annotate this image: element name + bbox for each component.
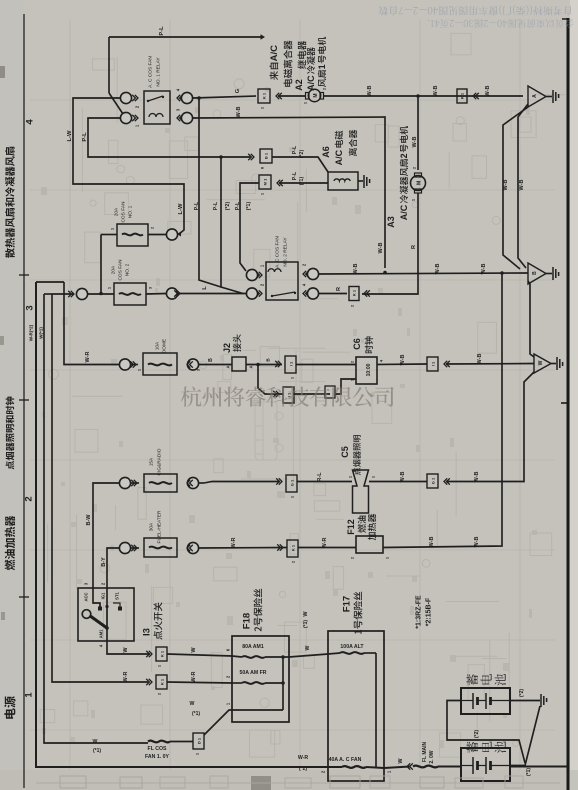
svg-text:W-B: W-B (400, 355, 406, 366)
svg-text:(*1): (*1) (192, 711, 200, 717)
svg-text:(*2): (*2) (519, 689, 525, 697)
fuse 15A CIG&RADIO (144, 474, 177, 492)
svg-text:P-L: P-L (292, 145, 298, 154)
svg-text:W-B: W-B (485, 86, 491, 97)
svg-text:W-R: W-R (298, 755, 309, 761)
svg-text:30A: 30A (149, 522, 155, 531)
svg-text:I 1: I 1 (288, 361, 293, 366)
svg-text:2. 0W: 2. 0W (429, 750, 435, 763)
svg-text:W-B: W-B (477, 354, 483, 365)
fuel heater F12 box (356, 536, 383, 553)
wire down to relay1 pin2 (108, 37, 110, 93)
connector K1 W-R row (156, 675, 167, 689)
svg-text:ST1: ST1 (115, 591, 120, 599)
fuse no.2 terminal (166, 288, 177, 299)
svg-text:B 1: B 1 (263, 152, 268, 159)
wire: P-L feed to A/C clutch relay (arrow) (109, 36, 262, 38)
svg-text:(*2): (*2) (474, 730, 480, 738)
svg-text:W-R: W-R (85, 352, 91, 363)
F12 ground wire to B row (383, 273, 502, 548)
svg-text:B: B (208, 358, 214, 362)
svg-text:W-R: W-R (231, 538, 237, 549)
svg-text:A/C: A/C (399, 204, 409, 220)
relay1 coil symbol (149, 114, 163, 118)
clutch coil A6 box (328, 172, 358, 190)
svg-text:W-R: W-R (123, 672, 129, 683)
svg-text:A/C: A/C (334, 149, 344, 165)
svg-text:W: W (123, 647, 129, 653)
motor A3: condenser fan no.2 (411, 176, 426, 191)
relay2 switch (272, 292, 295, 296)
fuse 10A DOME (143, 353, 177, 375)
svg-text:W(*1): W(*1) (39, 327, 44, 339)
svg-text:L: L (202, 286, 208, 290)
svg-text:W: W (305, 645, 311, 650)
svg-text:W-B: W-B (236, 107, 242, 118)
ground connector triangle W (534, 354, 551, 373)
svg-text:G 1: G 1 (430, 477, 435, 484)
connector K1 AM1 row (156, 647, 167, 661)
wire L to relay2 (178, 293, 246, 295)
bottom heavy power row continues to border (510, 766, 568, 768)
ground connector triangle B (528, 263, 546, 284)
W-B row relay2 to ground B (319, 273, 528, 274)
relay2 coil (268, 269, 281, 272)
svg-text:50A AM FR: 50A AM FR (240, 670, 267, 676)
svg-text:P-L: P-L (235, 201, 241, 210)
svg-text:L-W: L-W (67, 130, 73, 141)
svg-text:W-B: W-B (429, 537, 435, 548)
op relay U2: A/C COS FAN NO.2 RELAY box (266, 262, 298, 300)
svg-text:K 1: K 1 (290, 544, 295, 551)
connector D on C6 row (325, 386, 335, 398)
svg-text:40A A. C FAN: 40A A. C FAN (329, 757, 362, 763)
dome fuse terminal R (187, 359, 198, 370)
svg-text:W: W (398, 758, 404, 764)
battery2 to ground diag (510, 706, 540, 766)
cig fuse terminal R (187, 477, 198, 488)
watermark 杭州将睿科技有限公司 (181, 386, 394, 407)
fuel fuse terminal R (187, 542, 198, 553)
svg-text:20A: 20A (114, 207, 120, 216)
rail W(*1) (44, 294, 148, 743)
connector M1 (259, 175, 271, 189)
relay2 pin3 terminal (307, 268, 318, 279)
dark specks on left paper edge (0, 66, 5, 78)
battery2 label (467, 742, 478, 753)
right page border (thick) (567, 18, 570, 790)
svg-text:*1:3RZ-FE: *1:3RZ-FE (416, 595, 423, 629)
svg-text:COS FAN: COS FAN (121, 201, 127, 223)
wire F17 to FL MAIN (384, 767, 410, 769)
rail top links (36, 281, 64, 283)
ground A6 (364, 175, 370, 188)
svg-text:(*1): (*1) (246, 202, 252, 211)
relay2 pin4 terminal (307, 288, 318, 299)
fuse 20A COS FAN NO.1 (117, 224, 148, 246)
svg-text:(*1): (*1) (526, 768, 532, 776)
motor A2: condenser fan no.1 (308, 89, 320, 101)
wire B-W ACC feed (93, 483, 119, 607)
svg-text:K 1: K 1 (351, 289, 356, 296)
svg-text:10A: 10A (155, 341, 161, 350)
svg-text:W-B: W-B (353, 264, 359, 275)
wire P-L (*2) (221, 157, 243, 294)
dome fuse terminal L (119, 359, 130, 370)
svg-text:COS FAN: COS FAN (118, 259, 124, 281)
svg-text:15A: 15A (149, 457, 155, 466)
svg-text:4: 4 (24, 119, 35, 125)
svg-text:W: W (93, 739, 98, 745)
clock C6 (356, 357, 377, 384)
ground connector triangle A (528, 86, 546, 107)
svg-text:ACC: ACC (84, 592, 89, 601)
svg-text:W: W (190, 701, 195, 707)
svg-text:I 1: I 1 (286, 392, 291, 397)
B1 to A6 coil (*2) (272, 157, 328, 172)
svg-text:P-L: P-L (292, 171, 298, 180)
fusebox F17 (no.1) (328, 631, 384, 781)
M1 left wire down to relay2 (240, 183, 259, 271)
svg-text:A/C: A/C (269, 45, 280, 62)
svg-text:DOME: DOME (162, 339, 168, 353)
ground stub A (546, 96, 552, 98)
wire W-B row junction down to A3 motor (417, 96, 419, 170)
svg-text:*2:15B-F: *2:15B-F (426, 597, 433, 626)
svg-text:20A: 20A (111, 265, 117, 274)
C5 right wire (369, 481, 427, 483)
rail W-R(*2) (36, 282, 328, 767)
switch I3 ignition box (78, 588, 134, 641)
header: fuel heater (5, 560, 15, 571)
svg-text:A: A (226, 365, 231, 368)
svg-text:1: 1 (23, 692, 34, 698)
svg-text:1: 1 (317, 64, 327, 69)
svg-text:C5: C5 (340, 446, 350, 458)
ground W (557, 357, 563, 370)
svg-text:R: R (336, 287, 342, 291)
svg-text:NO. 2: NO. 2 (125, 263, 131, 276)
svg-text:W: W (303, 611, 309, 617)
fuse 20A COS FAN NO.2 (114, 283, 146, 305)
svg-text:A3: A3 (386, 216, 396, 228)
connector K1 relay2 out (349, 287, 359, 301)
svg-text:L-W: L-W (178, 203, 184, 214)
connector I1 on C6 row (285, 356, 296, 373)
left feed terminal (76, 288, 87, 299)
svg-text:K 1: K 1 (261, 92, 266, 99)
svg-text:P-L: P-L (159, 26, 165, 36)
cigarette lighter C5 (353, 470, 369, 513)
connector K1 before F12 (287, 540, 298, 557)
svg-text:I 1: I 1 (430, 361, 435, 366)
svg-text:P-L: P-L (194, 201, 200, 210)
svg-text:FL COS: FL COS (148, 746, 167, 752)
relay1 pin 3 terminal (181, 112, 192, 123)
relay1 pin 1 terminal (120, 112, 131, 123)
svg-text:(*2): (*2) (299, 766, 307, 772)
svg-text:W-B: W-B (412, 137, 418, 148)
svg-text:W: W (191, 647, 197, 653)
svg-text:M: M (416, 181, 422, 185)
relay2 pin1 terminal (246, 269, 257, 280)
svg-text:B-Y: B-Y (101, 557, 107, 567)
svg-text:A/C: A/C (306, 75, 316, 91)
svg-text:FL MAIN: FL MAIN (422, 742, 428, 763)
svg-text:(*1): (*1) (303, 620, 309, 628)
diagonal D1 to F18 (204, 710, 232, 735)
ground battery (541, 694, 547, 707)
fuse 30A FUEL-HEATER (144, 538, 177, 557)
svg-text:IG1: IG1 (101, 592, 106, 599)
svg-text:W-B: W-B (435, 264, 441, 275)
svg-text:80A AM1: 80A AM1 (242, 644, 264, 650)
svg-text:W-R(*2): W-R(*2) (29, 324, 34, 341)
svg-text:2: 2 (23, 496, 34, 501)
wire fuse no.1 to L row (100, 235, 102, 294)
header: cigarette lighter illumination & clock (6, 461, 15, 470)
svg-text:I3: I3 (141, 628, 152, 636)
fusebox F18 (no.2) (232, 636, 289, 722)
M1 wire to A6 coil (*1) (279, 182, 328, 184)
connector K1 on G row (258, 89, 270, 103)
svg-text:(*2): (*2) (299, 150, 305, 159)
wire P-L from G row (199, 98, 221, 287)
battery1 label (467, 674, 478, 685)
section tick marks (19, 274, 29, 276)
wire: G row relay1 pin4 to A2 motor (193, 96, 256, 98)
svg-text:W-B: W-B (433, 86, 439, 97)
svg-text:W-B: W-B (400, 472, 406, 483)
connector B1 (260, 149, 272, 163)
svg-text:W-B: W-B (367, 86, 373, 97)
label: from A/C magnetic clutch relay (270, 71, 279, 80)
mirrored bleed caption line 1 (379, 5, 571, 16)
svg-text:A2: A2 (294, 79, 304, 91)
svg-text:A: A (249, 365, 254, 368)
svg-text:NO. 1: NO. 1 (128, 205, 134, 218)
svg-text:2: 2 (399, 153, 409, 158)
svg-text:K 1: K 1 (159, 650, 164, 657)
svg-text:3: 3 (24, 305, 35, 310)
fuse no.1 terminal (166, 229, 177, 240)
connector G1 left of C5 (286, 475, 297, 492)
svg-text:FUEL-HEATER: FUEL-HEATER (157, 510, 163, 543)
wire relay1 pin3 W-B to vertical (193, 117, 385, 268)
battery1 to ground (510, 700, 540, 702)
svg-text:K 1: K 1 (159, 678, 164, 685)
relay1 switch contact (148, 96, 163, 101)
svg-text:R: R (411, 245, 417, 249)
rail W-R to DOME row (64, 282, 120, 365)
relay1 pin 4 terminal (181, 92, 192, 103)
svg-text:NO. 1 RELAY: NO. 1 RELAY (156, 57, 162, 87)
W-B row to ground A (324, 95, 524, 97)
svg-text:P-L: P-L (82, 132, 88, 142)
svg-text:(*2): (*2) (225, 202, 231, 211)
svg-text:D 1: D 1 (196, 737, 201, 744)
svg-text:A6: A6 (321, 146, 331, 158)
battery series link (447, 701, 525, 764)
svg-text:W-B: W-B (503, 180, 509, 191)
connector on W-B row (457, 89, 467, 103)
svg-text:M 1: M 1 (262, 178, 267, 185)
I3 lever (90, 616, 108, 629)
svg-text:B-W: B-W (86, 514, 92, 526)
svg-text:F12: F12 (346, 519, 356, 535)
svg-text:(*1): (*1) (299, 177, 305, 186)
svg-text:100A ALT: 100A ALT (340, 644, 364, 650)
svg-text:C6: C6 (352, 338, 362, 350)
svg-text:10:00: 10:00 (366, 363, 372, 376)
header: radiator fan & condenser fan (5, 248, 15, 258)
svg-text:W-R: W-R (191, 672, 197, 683)
svg-text:CIG&RADIO: CIG&RADIO (157, 448, 163, 475)
branch to C6 pin1 (258, 365, 283, 395)
bottom bleed blocks (251, 776, 271, 790)
wire A3 motor to relay2 via K1 (362, 193, 418, 294)
wire F18 to F17 (289, 654, 328, 657)
svg-text:R-L: R-L (317, 472, 323, 482)
svg-text:F17: F17 (341, 596, 352, 612)
battery 2 (461, 748, 510, 781)
border tick (561, 402, 568, 404)
battery 1 (461, 688, 510, 714)
svg-text:B: B (532, 271, 538, 275)
F18 inner bus (282, 657, 284, 710)
svg-text:F18: F18 (241, 613, 252, 629)
relay2 pin2 terminal (246, 288, 257, 299)
F17 inner bus (375, 653, 377, 767)
svg-text:K 1: K 1 (459, 92, 464, 99)
op relay U1: A/C COS FAN NO.1 RELAY box (144, 91, 170, 124)
svg-text:NO. 2 RELAY: NO. 2 RELAY (283, 237, 289, 267)
connector I1 right of C6 (427, 357, 438, 371)
svg-text:(*1): (*1) (93, 748, 101, 754)
svg-text:M: M (313, 93, 319, 97)
svg-text:FAN 1. 0Y: FAN 1. 0Y (145, 754, 169, 760)
svg-text:W-B: W-B (378, 243, 384, 254)
svg-text:AM1: AM1 (99, 629, 104, 639)
svg-text:A. C COS FAN: A. C COS FAN (148, 56, 154, 88)
junction J2 connector (232, 357, 246, 371)
svg-text:W-B: W-B (474, 472, 480, 483)
wire relay1 pin1 P-L branch (88, 118, 250, 157)
wire B-Y IG1 feed (107, 548, 119, 628)
svg-text:J2: J2 (222, 343, 232, 353)
left margin rule (landscape top) (23, 14, 25, 788)
svg-text:P-L: P-L (213, 201, 219, 210)
svg-text:A. C COS FAN: A. C COS FAN (275, 236, 281, 268)
svg-text:W: W (538, 360, 544, 365)
svg-text:W-R: W-R (322, 538, 328, 549)
FL COS fusible link row (148, 741, 170, 743)
W-B verticals ground A to B (518, 104, 528, 268)
ground B (553, 267, 559, 280)
vertical ground B to W (528, 281, 534, 357)
fuel fuse terminal L (119, 542, 130, 553)
header: power source (4, 708, 15, 718)
fusible link FL MAIN (413, 766, 438, 768)
connector G1 right of C5 (427, 474, 438, 488)
wire relay1 pin2 to L-W loop (73, 98, 184, 234)
mirrored bleed caption line 2 (428, 19, 574, 28)
rail to F18 row2 (52, 294, 148, 682)
svg-text:W-B: W-B (519, 180, 525, 191)
ground A (553, 90, 559, 103)
connector D1 (193, 733, 204, 749)
svg-text:W-B: W-B (474, 537, 480, 548)
svg-text:G 1: G 1 (289, 479, 294, 486)
svg-text:W-B: W-B (481, 264, 487, 275)
cig fuse terminal L (119, 477, 130, 488)
AM1 wire out (107, 628, 150, 654)
relay1 pin 2 terminal (120, 92, 131, 103)
svg-text:A: A (532, 94, 538, 98)
connector I1 lower (283, 387, 294, 403)
svg-text:G: G (235, 88, 241, 93)
A6 ground (358, 180, 363, 182)
